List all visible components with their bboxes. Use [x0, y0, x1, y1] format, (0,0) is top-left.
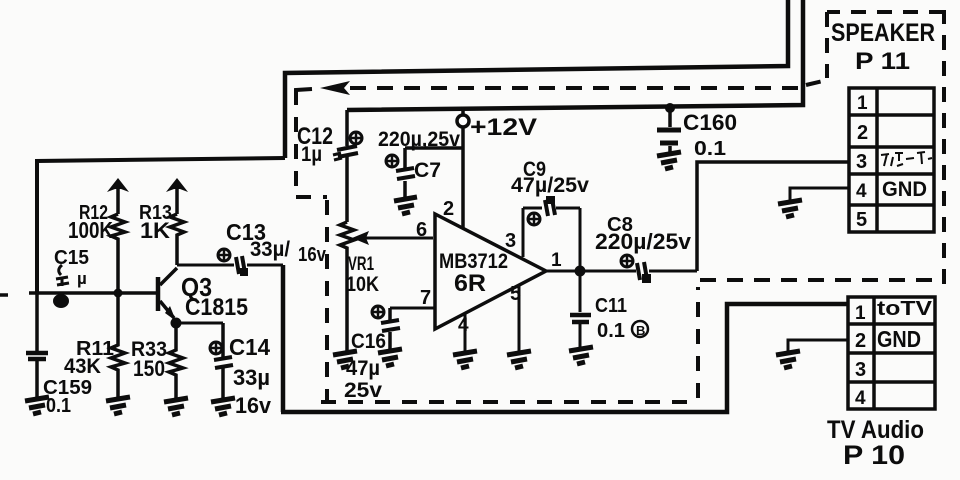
- capacitor C160: [657, 103, 737, 160]
- label TV Audio: [827, 416, 924, 444]
- svg-text:10K: 10K: [346, 273, 379, 296]
- label SPEAKER: [831, 19, 935, 47]
- power arrow (R13): [166, 178, 188, 214]
- resistor R33: [131, 323, 183, 398]
- pin 6 label: [416, 219, 427, 241]
- svg-text:16v: 16v: [298, 244, 327, 266]
- ground (speaker pin4): [778, 200, 802, 217]
- node: emitter junction: [171, 318, 182, 329]
- svg-text:1: 1: [855, 303, 866, 324]
- potentiometer VR1: [340, 156, 433, 351]
- svg-text:3: 3: [856, 151, 867, 173]
- P10 pin 3 label: [855, 359, 866, 381]
- wire: C12 input drop: [345, 110, 349, 146]
- svg-text:2: 2: [855, 330, 866, 352]
- resistor R12: [68, 202, 125, 293]
- svg-text:1: 1: [857, 93, 868, 114]
- ground (R33): [164, 398, 188, 415]
- pin 7 label: [420, 287, 431, 309]
- ground (P10 pin2): [776, 351, 800, 368]
- svg-text:150: 150: [133, 356, 165, 381]
- capacitor C16: [344, 306, 400, 402]
- wire: speaker feed: [697, 162, 849, 271]
- svg-text:0.1: 0.1: [46, 395, 71, 417]
- ground (VR1): [333, 351, 357, 368]
- svg-text:43K: 43K: [64, 355, 101, 378]
- capacitor C7: [378, 128, 460, 198]
- svg-text:C14: C14: [229, 334, 270, 360]
- svg-text:4: 4: [856, 181, 867, 202]
- svg-text:3: 3: [505, 230, 516, 252]
- wire: emitter to C14: [176, 322, 223, 325]
- node: base junction: [53, 294, 69, 308]
- svg-text:220µ/25v: 220µ/25v: [595, 229, 692, 254]
- ground (R11): [106, 397, 130, 414]
- capacitor C11: [570, 271, 627, 348]
- ground (C14): [211, 398, 235, 415]
- capacitor C12: [297, 123, 362, 166]
- svg-text:+12V: +12V: [470, 114, 537, 141]
- svg-text:47µ/25v: 47µ/25v: [511, 174, 589, 197]
- wire: audio out to TV: [281, 265, 849, 412]
- capacitor C13: [218, 219, 327, 276]
- svg-text:33µ: 33µ: [233, 365, 270, 390]
- label +12V: [470, 114, 537, 141]
- P10 pin 1 label: [855, 303, 866, 324]
- svg-text:6: 6: [416, 219, 427, 241]
- connector P11 table: [849, 88, 934, 232]
- svg-text:P 10: P 10: [843, 440, 905, 470]
- wire: pin 5: [518, 286, 521, 351]
- svg-text:C160: C160: [683, 110, 737, 135]
- P11 pin 2 label: [857, 122, 868, 144]
- wire: output pin 1: [546, 270, 636, 273]
- P10 pin 4 label: [855, 388, 866, 409]
- svg-text:P 11: P 11: [855, 48, 910, 75]
- svg-text:47µ: 47µ: [346, 357, 380, 380]
- svg-text:SPEAKER: SPEAKER: [831, 19, 935, 47]
- svg-text:C15: C15: [54, 247, 89, 269]
- svg-text:µ: µ: [77, 269, 87, 288]
- ground (pin 4): [453, 351, 477, 368]
- ground (C16): [378, 349, 402, 366]
- svg-text:16v: 16v: [235, 393, 272, 418]
- wire: inner +12V bus: [347, 0, 803, 110]
- svg-text:GND: GND: [877, 326, 921, 352]
- label P 10: [843, 440, 905, 470]
- wire: pin 7: [390, 307, 434, 310]
- P11 pin 4 label: [856, 181, 867, 202]
- pin 2 label: [443, 198, 454, 220]
- wire: pin 4: [464, 313, 467, 351]
- capacitor C159: [26, 293, 92, 417]
- capacitor C14: [210, 323, 272, 418]
- P11 pin 3 label: [856, 151, 867, 173]
- P11 pin3 katakana note: [881, 152, 932, 166]
- capacitor C9: [511, 158, 589, 268]
- svg-text:1µ: 1µ: [301, 143, 322, 166]
- svg-text:5: 5: [856, 209, 867, 231]
- ground (C7): [394, 197, 417, 214]
- resistor R11: [64, 293, 125, 397]
- svg-text:B: B: [636, 323, 645, 338]
- label to TV (P10 pin1): [877, 298, 933, 320]
- transistor Q3: [158, 268, 248, 321]
- svg-text:33µ/: 33µ/: [250, 238, 290, 261]
- wire: speaker GND pin 4: [790, 188, 849, 201]
- capacitor C8: [595, 214, 697, 283]
- power arrow (R12): [107, 178, 129, 214]
- svg-text:25v: 25v: [344, 379, 382, 402]
- arrow on shield (top edge): [296, 81, 350, 95]
- P11 pin 1 label: [857, 93, 868, 114]
- ground (C11): [569, 347, 593, 364]
- svg-text:3: 3: [855, 359, 866, 381]
- wire: top input bus outer: [285, 0, 788, 158]
- svg-text:4: 4: [855, 388, 866, 409]
- ground (pin 5): [507, 351, 531, 368]
- svg-text:C7: C7: [414, 159, 441, 182]
- wire: collector node to C13: [177, 264, 234, 267]
- capacitor C15: [54, 247, 89, 288]
- svg-text:C11: C11: [595, 295, 627, 317]
- svg-text:1: 1: [551, 250, 562, 271]
- svg-text:GND: GND: [882, 178, 927, 201]
- ground (C160): [657, 152, 681, 169]
- svg-text:1K: 1K: [140, 218, 170, 243]
- dashed shield outline: amplifier block: [296, 88, 944, 402]
- wire: P10 pin2 ground: [788, 340, 849, 352]
- label P 11: [855, 48, 910, 75]
- svg-text:220µ,25v: 220µ,25v: [378, 128, 460, 151]
- svg-text:C1815: C1815: [185, 294, 248, 321]
- node: +12V terminal: [457, 108, 469, 148]
- P11 pin 5 label: [856, 209, 867, 231]
- wire: Q3 base line: [0, 289, 158, 298]
- op-amp U1 MB3712: [435, 214, 546, 329]
- ground (C159): [25, 397, 49, 414]
- svg-text:VR1: VR1: [348, 254, 374, 275]
- pin 5 label: [510, 283, 521, 305]
- resistor R13: [139, 202, 184, 265]
- svg-text:2: 2: [857, 122, 868, 144]
- svg-text:0.1: 0.1: [694, 138, 726, 160]
- node: output junction: [575, 266, 586, 277]
- svg-text:2: 2: [443, 198, 454, 220]
- pin 1 label: [551, 250, 562, 271]
- pin 3 label: [505, 230, 516, 252]
- svg-text:100K: 100K: [68, 217, 113, 243]
- svg-text:toTV: toTV: [877, 298, 933, 320]
- connector P10 table: [848, 297, 935, 409]
- P10 pin 2 label: [855, 330, 866, 352]
- svg-text:C16: C16: [351, 330, 386, 353]
- dashed shield outline: speaker block: [806, 10, 944, 284]
- wire: +12V to C7 and pin 2: [405, 148, 463, 229]
- svg-text:6R: 6R: [454, 270, 486, 297]
- pin 4 label: [458, 315, 469, 336]
- wire: feed line to Q3 stage: [37, 158, 285, 293]
- label GND (P11 pin4): [882, 178, 927, 201]
- label GND (P10 pin2): [877, 326, 921, 352]
- revision mark circled B: [632, 321, 648, 338]
- svg-text:7: 7: [420, 287, 431, 309]
- svg-text:0.1: 0.1: [597, 320, 625, 342]
